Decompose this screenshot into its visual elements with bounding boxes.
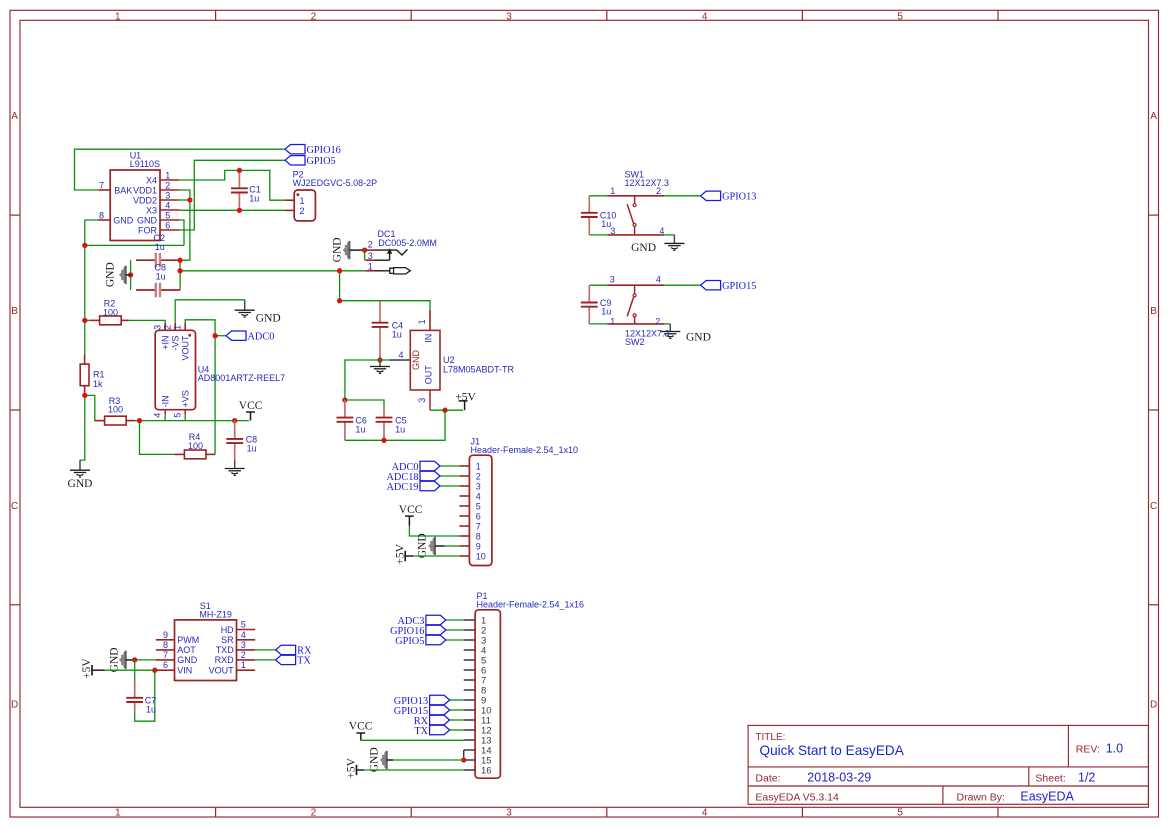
net flag GPIO13 [701, 191, 721, 200]
svg-text:3: 3 [610, 275, 615, 285]
net flag RX at S1 [276, 645, 296, 654]
net flag GPIO13 at P1 [430, 695, 450, 704]
ground arrow DC1 [343, 242, 350, 258]
wire +5V to S1 VIN [105, 669, 156, 671]
wire U1 pin8 GND [85, 220, 99, 245]
junction dot R2 left [82, 318, 87, 323]
junction dot DC1 gnd [362, 247, 367, 252]
net flag GPIO15 at P1 [430, 705, 450, 714]
wire U2 OUT to +5V [430, 409, 463, 411]
U2 pin1 stub top [429, 310, 431, 330]
ground symbol bottom left [79, 461, 81, 470]
svg-text:2: 2 [163, 325, 173, 330]
VCC symbol J1 [405, 515, 414, 517]
svg-text:TX: TX [297, 656, 311, 667]
title block outer rect [748, 725, 1148, 804]
svg-text:1/2: 1/2 [1078, 771, 1095, 785]
switch SW1 [608, 195, 635, 197]
wire +5V down to rail [345, 410, 445, 440]
svg-text:GND: GND [416, 533, 428, 558]
title block divider Drawn By [942, 786, 944, 804]
wire supply vertical to R2 R1 [84, 245, 86, 354]
svg-text:GND: GND [108, 647, 120, 672]
P2 pin1 marker dot [297, 193, 300, 196]
svg-text:3: 3 [506, 808, 512, 819]
+5V symbol U2 [459, 400, 468, 402]
svg-text:SR: SR [221, 635, 234, 645]
junction dot VCC rail [232, 418, 237, 423]
wire GPIO16 to P1 pin2 [446, 629, 464, 631]
junction dot C1 bottom [237, 208, 242, 213]
ground arrow S1 [119, 652, 126, 668]
junction dot DC1 pin1 wire [337, 268, 342, 273]
frame row ticks right [1149, 214, 1159, 216]
wire C7 bottom loop [135, 670, 155, 721]
wire U1 pin4 X3 to P2 pin2 [180, 209, 285, 211]
wire GPIO15 to P1 pin10 [450, 709, 464, 711]
DC1 pin1 stub [365, 270, 375, 272]
IC U1 L9110S box [110, 170, 160, 241]
svg-text:GPIO15: GPIO15 [722, 281, 756, 292]
svg-text:GND: GND [113, 215, 134, 225]
svg-text:1: 1 [417, 319, 427, 324]
wire RX flag to S1 TXD [255, 649, 275, 651]
U4 pin1 marker dot [188, 334, 191, 337]
svg-text:TX: TX [414, 726, 428, 737]
svg-text:1: 1 [300, 196, 305, 206]
wire C5 top link [345, 400, 384, 408]
svg-text:GND: GND [104, 262, 116, 287]
frame row ticks left [10, 214, 20, 216]
wire GPIO16 to U1 pin7 [75, 149, 286, 190]
svg-text:1.0: 1.0 [1106, 742, 1123, 756]
U4 top pin stubs 3 2 1 [164, 323, 166, 330]
svg-text:-IN: -IN [160, 395, 170, 407]
svg-text:A: A [11, 111, 18, 122]
wire R1 bottom to GND symbol [80, 395, 85, 462]
DC1 pin2 stub [365, 249, 375, 251]
svg-text:1u: 1u [395, 425, 405, 435]
svg-text:GPIO5: GPIO5 [395, 636, 424, 647]
wire TX flag to S1 RXD [255, 659, 275, 661]
svg-text:3: 3 [153, 325, 163, 330]
capacitor C8 lower [136, 289, 156, 291]
wire DC1 pin2 pin3 link [364, 250, 366, 260]
DC1 chevron [397, 249, 408, 255]
net flag GPIO5 at P1 [426, 635, 446, 644]
svg-text:16: 16 [481, 765, 492, 776]
wire SW1 bottom right to GND [664, 234, 674, 236]
wire VCC to P1 pin13 [361, 739, 464, 741]
svg-text:U2: U2 [443, 355, 455, 365]
switch SW2 [608, 284, 635, 286]
wire C2 C8 left vertical [130, 260, 132, 290]
svg-text:5: 5 [173, 413, 183, 418]
resistor R3 [105, 416, 127, 425]
svg-text:-VS: -VS [170, 336, 180, 351]
wire U4 pin5 stub drop [184, 415, 186, 421]
svg-text:1u: 1u [601, 307, 611, 317]
VCC symbol U4 [246, 411, 255, 413]
svg-text:GND: GND [177, 655, 198, 665]
net flag ADC0 at J1 [420, 461, 440, 470]
wire TX to P1 pin12 [450, 729, 464, 731]
svg-text:AOT: AOT [177, 645, 196, 655]
svg-text:B: B [11, 306, 18, 317]
wire ADC19 to J1 pin3 [440, 485, 459, 487]
wire U1 pin5 GND down [180, 220, 184, 245]
svg-text:4: 4 [153, 413, 163, 418]
svg-text:L78M05ABDT-TR: L78M05ABDT-TR [443, 364, 515, 374]
svg-text:Sheet:: Sheet: [1035, 772, 1065, 784]
svg-text:A: A [1150, 111, 1157, 122]
svg-text:MH-Z19: MH-Z19 [199, 609, 232, 619]
svg-text:ADC19: ADC19 [386, 482, 418, 493]
svg-text:1u: 1u [249, 194, 259, 204]
net flag TX at S1 [276, 655, 296, 664]
svg-text:WJ2EDGVC-5.08-2P: WJ2EDGVC-5.08-2P [293, 178, 378, 188]
frame column ticks bottom [215, 807, 217, 817]
svg-text:100: 100 [188, 441, 203, 451]
+5V symbol J1 pin10 [404, 551, 406, 561]
svg-text:1: 1 [173, 325, 183, 330]
net flag ADC19 [420, 481, 440, 490]
svg-text:5: 5 [476, 501, 481, 511]
U4 bottom pin stubs 4 5 [164, 410, 166, 415]
title block divider REV [1067, 725, 1069, 767]
wire U1 pin3 VDD2 join [180, 199, 190, 201]
svg-text:3: 3 [241, 640, 246, 650]
svg-text:2: 2 [476, 471, 481, 481]
svg-text:VCC: VCC [399, 504, 423, 516]
ground symbol under C8 [234, 460, 236, 469]
net flag ADC0 at U4 [226, 331, 246, 340]
+5V symbol S1 [91, 665, 93, 675]
capacitor C8 at VCC [234, 421, 236, 439]
svg-text:GND: GND [256, 312, 281, 324]
svg-text:5: 5 [897, 11, 903, 22]
junction dot U1 pin3 [187, 197, 192, 202]
wire gnd to P1 pin15 [393, 759, 464, 761]
svg-text:GND: GND [331, 237, 343, 262]
wire GPIO5 to U1 pin6 [180, 160, 285, 230]
connector J1 box [469, 455, 492, 565]
svg-text:1: 1 [115, 808, 121, 819]
svg-text:VDD2: VDD2 [133, 195, 157, 205]
junction dot C5 bottom [381, 438, 386, 443]
capacitor C7 [134, 682, 136, 698]
svg-text:5: 5 [897, 808, 903, 819]
svg-text:ADC0: ADC0 [248, 332, 275, 343]
svg-text:3: 3 [476, 481, 481, 491]
capacitor C9 [588, 285, 590, 302]
wire R3 right to rail [135, 420, 140, 422]
svg-text:2: 2 [368, 240, 373, 250]
svg-text:Date:: Date: [755, 772, 780, 784]
connector P2 box [294, 190, 315, 221]
svg-text:5: 5 [165, 210, 170, 220]
S1 left pin stubs 9 8 7 6 [156, 639, 175, 641]
wire ADC0 to J1 pin1 [440, 465, 459, 467]
junction dot S1 GND [132, 657, 137, 662]
svg-text:VDD1: VDD1 [133, 185, 157, 195]
svg-text:9: 9 [476, 541, 481, 551]
svg-text:5: 5 [241, 620, 246, 630]
resistor R1 vertical [80, 364, 89, 386]
VCC symbol P1 [356, 732, 365, 734]
svg-text:+5V: +5V [81, 658, 93, 679]
svg-text:8: 8 [99, 210, 104, 220]
net flag RX at P1 [430, 715, 450, 724]
ground arrow J1 pin9 [428, 538, 435, 554]
svg-text:6: 6 [163, 660, 168, 670]
junction dot C4 bottom [377, 357, 382, 362]
svg-text:3: 3 [506, 11, 512, 22]
capacitor C5 [383, 408, 385, 418]
svg-text:OUT: OUT [424, 365, 434, 385]
wire GPIO5 to P1 pin3 [446, 639, 464, 641]
svg-text:VIN: VIN [177, 666, 192, 676]
net flag TX at P1 [430, 725, 450, 734]
wire U1 pin2 VDD1 down [180, 190, 190, 260]
svg-text:7: 7 [476, 521, 481, 531]
svg-text:100: 100 [108, 405, 123, 415]
svg-text:IN: IN [424, 334, 434, 343]
U2 pin3 stub bottom [429, 390, 431, 410]
svg-text:GND: GND [686, 332, 711, 344]
resistor R4 [184, 450, 206, 459]
svg-text:2: 2 [311, 11, 317, 22]
svg-text:GND: GND [411, 350, 421, 371]
ground symbol SW2 [669, 324, 671, 332]
junction dot VDD wire [177, 268, 182, 273]
svg-text:4: 4 [656, 275, 661, 285]
ground symbol U4 -VS [244, 300, 246, 310]
wire SW1 bottom left [589, 234, 607, 236]
svg-text:VOUT: VOUT [209, 666, 235, 676]
wire rail y420 to VCC [140, 420, 249, 422]
DC1 pin1 barrel plug [375, 270, 390, 272]
svg-text:3: 3 [368, 251, 373, 261]
svg-text:1k: 1k [93, 379, 103, 389]
connector P1 box [475, 610, 500, 778]
svg-text:1: 1 [610, 186, 615, 196]
svg-text:B: B [1150, 306, 1157, 317]
wire U4 pin2 -VS up to GND [175, 300, 245, 323]
op-amp U4 AD8001 box [155, 330, 195, 409]
ground symbol SW1 [673, 235, 675, 244]
wire gnd to J1 pin9 [445, 545, 460, 547]
+5V symbol P1 pin16 [356, 765, 358, 775]
net flag GPIO5 [285, 156, 305, 165]
svg-text:2: 2 [656, 186, 661, 196]
svg-text:VOUT: VOUT [180, 335, 190, 361]
capacitor C2 [136, 259, 156, 261]
wire SW2 top left [589, 284, 607, 286]
DC1 pin2 contact [375, 249, 397, 251]
net flag ADC3 [426, 615, 446, 624]
wire SW2 top right to GPIO15 [664, 284, 700, 286]
svg-text:VCC: VCC [239, 400, 263, 412]
svg-text:+5V: +5V [394, 543, 406, 564]
svg-text:L9110S: L9110S [130, 159, 160, 169]
junction dot C2C8 ground [128, 272, 133, 277]
svg-text:2: 2 [311, 808, 317, 819]
svg-text:2: 2 [655, 317, 660, 327]
net flag ADC18 [420, 471, 440, 480]
wire R1 to R3 jog [85, 395, 105, 420]
svg-text:Quick Start to EasyEDA: Quick Start to EasyEDA [760, 743, 905, 758]
wire C4 gnd to C6 [345, 360, 380, 400]
svg-text:3: 3 [165, 190, 170, 200]
svg-text:9: 9 [163, 630, 168, 640]
wire P1 pin14 link [463, 750, 465, 757]
svg-text:+5V: +5V [346, 757, 358, 778]
resistor R2 [100, 316, 122, 325]
wire U1 pin1 X4 to P2 pin1 [180, 170, 285, 200]
sensor S1 MH-Z19 box [175, 620, 237, 681]
svg-text:GND: GND [137, 215, 158, 225]
svg-text:AD8001ARTZ-REEL7: AD8001ARTZ-REEL7 [198, 373, 285, 383]
svg-text:TITLE:: TITLE: [755, 732, 785, 743]
svg-text:SW2: SW2 [625, 337, 645, 347]
svg-text:RXD: RXD [215, 655, 235, 665]
svg-text:4: 4 [476, 491, 481, 501]
junction dot VOUT ADC0 [212, 333, 217, 338]
capacitor C10 [588, 196, 590, 213]
ground arrow P1 pin15 [380, 752, 387, 768]
P1 pin stubs 1-16 [464, 619, 475, 621]
junction dot +5V [442, 408, 447, 413]
svg-text:PWM: PWM [177, 635, 199, 645]
J1 pin stubs 1-10 [459, 465, 469, 467]
junction dot R1 bottom [82, 393, 87, 398]
svg-text:DC005-2.0MM: DC005-2.0MM [378, 238, 437, 248]
svg-text:3: 3 [417, 398, 427, 403]
svg-text:GPIO5: GPIO5 [307, 156, 336, 167]
junction dot U2 branch [337, 298, 342, 303]
net flag GPIO15 [701, 281, 721, 290]
svg-text:7: 7 [99, 180, 104, 190]
wire DC1 to U2 IN [340, 271, 430, 310]
title block row line 1 [748, 766, 1148, 768]
svg-text:1: 1 [476, 461, 481, 471]
svg-text:+5V: +5V [455, 391, 476, 403]
svg-text:2018-03-29: 2018-03-29 [807, 771, 871, 785]
svg-text:1u: 1u [146, 704, 156, 714]
wire SW1 top right to GPIO13 [664, 195, 700, 197]
wire SW1 top left [589, 195, 607, 197]
svg-text:4: 4 [241, 630, 246, 640]
svg-text:C: C [11, 501, 18, 512]
svg-text:1u: 1u [601, 219, 611, 229]
net flag GPIO16 at P1 [426, 625, 446, 634]
svg-text:BAK: BAK [114, 185, 132, 195]
junction dot C1 top [237, 168, 242, 173]
wire +5V to J1 pin10 [413, 555, 459, 557]
svg-text:GPIO16: GPIO16 [307, 145, 341, 156]
wire VDD net to DC1 pin1 [180, 270, 365, 272]
svg-text:+VS: +VS [180, 390, 190, 407]
ground symbol under C4 [379, 360, 381, 367]
svg-text:1u: 1u [247, 444, 257, 454]
svg-text:D: D [11, 700, 18, 711]
U2 pin4 stub [380, 359, 389, 361]
svg-text:1: 1 [610, 317, 615, 327]
U1 right pin stubs 1-6 [160, 179, 180, 181]
svg-text:100: 100 [103, 307, 118, 317]
wire +5V to P1 pin16 [364, 769, 463, 771]
svg-text:2: 2 [241, 650, 246, 660]
svg-text:2: 2 [165, 180, 170, 190]
svg-text:HD: HD [221, 625, 234, 635]
svg-text:4: 4 [659, 226, 664, 236]
svg-text:X3: X3 [146, 205, 157, 215]
svg-text:1u: 1u [355, 425, 365, 435]
wire SW2 bottom right to GND [664, 323, 670, 325]
svg-text:GND: GND [631, 242, 656, 254]
svg-text:1u: 1u [392, 329, 402, 339]
junction dot C6 top [342, 397, 347, 402]
svg-text:X4: X4 [146, 175, 157, 185]
capacitor C4 [379, 301, 381, 323]
svg-text:Drawn By:: Drawn By: [957, 791, 1005, 803]
wire SW2 bottom left [589, 323, 607, 325]
svg-text:TXD: TXD [216, 645, 235, 655]
svg-text:1: 1 [165, 170, 170, 180]
junction dot P1 pin15 [461, 757, 466, 762]
U1 left pin stubs 7 8 [98, 189, 110, 191]
wire C7 branch down [134, 660, 136, 682]
svg-text:4: 4 [398, 350, 403, 360]
svg-text:7: 7 [163, 650, 168, 660]
svg-text:GND: GND [369, 747, 381, 772]
wire ADC18 to J1 pin2 [440, 475, 459, 477]
svg-text:1: 1 [115, 11, 121, 22]
ground arrow C2 C8 [119, 267, 126, 283]
svg-text:GPIO13: GPIO13 [722, 192, 756, 203]
svg-text:EasyEDA: EasyEDA [1020, 790, 1074, 804]
svg-text:1u: 1u [156, 272, 166, 282]
wire VCC to J1 pin8 [409, 526, 459, 536]
svg-text:C: C [1150, 501, 1157, 512]
svg-text:Header-Female-2.54_1x16: Header-Female-2.54_1x16 [477, 599, 585, 609]
wire ADC0 tap [215, 335, 226, 337]
junction dot rail R3 [137, 418, 142, 423]
wire RX to P1 pin11 [450, 719, 464, 721]
wire R2 to U4 +IN [85, 319, 90, 321]
S1 right pin stubs 5 4 3 2 1 [237, 629, 256, 631]
junction dot supply rail [82, 243, 87, 248]
junction dot C2 right [177, 258, 182, 263]
DC1 pin3 contact with arrow [375, 259, 390, 261]
wire gnd to S1 GND pin [135, 659, 156, 661]
wire R4 right up to VOUT [185, 320, 215, 455]
svg-text:1: 1 [368, 261, 373, 271]
junction dot S1 VIN [152, 668, 157, 673]
svg-text:10: 10 [476, 551, 486, 561]
wire U4 pin4 stub drop [164, 415, 166, 421]
svg-text:+IN: +IN [160, 336, 170, 350]
capacitor C6 [344, 400, 346, 418]
wire GND rail y245 [85, 244, 184, 246]
svg-text:4: 4 [165, 200, 170, 210]
capacitor C1 [238, 170, 240, 188]
svg-text:4: 4 [702, 808, 708, 819]
DC1 pin3 stub [365, 259, 375, 261]
svg-text:12X12X7.3: 12X12X7.3 [625, 178, 670, 188]
P2 pin stubs [285, 199, 294, 201]
